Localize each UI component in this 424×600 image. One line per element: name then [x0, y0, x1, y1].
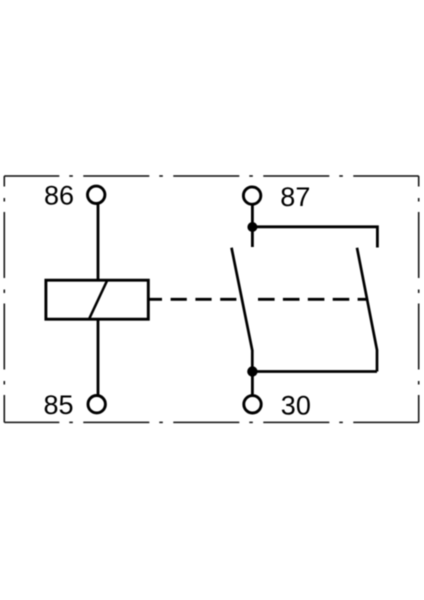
wire bottom bus to junction — [252, 370, 377, 373]
terminal 85 — [88, 396, 105, 413]
svg-text:87: 87 — [280, 182, 310, 212]
relay enclosure dash-dot outline — [4, 176, 418, 422]
coil actuation dashed link — [148, 298, 237, 301]
junction node at 87 — [247, 222, 257, 232]
junction node at 30 — [247, 366, 257, 376]
switch blade right contact — [357, 248, 377, 372]
svg-text:30: 30 — [281, 391, 311, 421]
svg-text:86: 86 — [44, 181, 74, 211]
switch blade left contact — [232, 248, 253, 367]
wire 87 to junction and fixed contact stub — [251, 204, 254, 247]
relay coil — [46, 280, 148, 319]
terminal 30 — [244, 396, 261, 413]
wire 86 to coil — [97, 203, 100, 280]
terminal 86 — [88, 186, 105, 203]
svg-text:85: 85 — [43, 390, 73, 420]
wire coil to 85 — [97, 319, 100, 396]
terminal 87 — [243, 187, 260, 204]
wire junction to 30 — [251, 372, 254, 397]
wire junction to right contact — [252, 227, 377, 248]
